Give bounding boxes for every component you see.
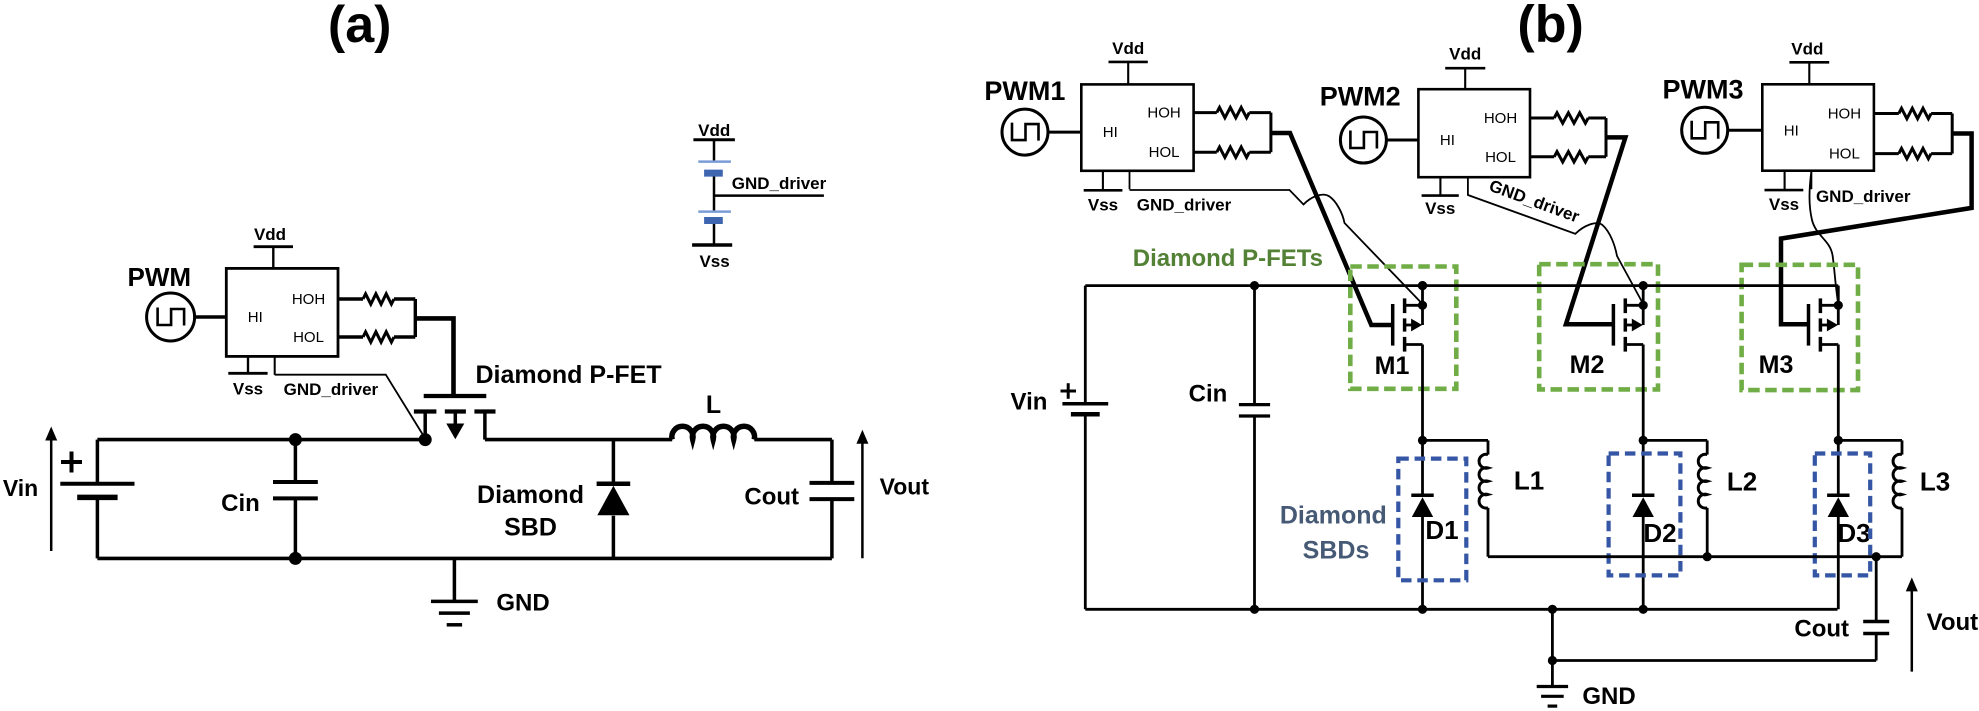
svg-text:Diamond P-FETs: Diamond P-FETs <box>1133 245 1323 272</box>
svg-text:D2: D2 <box>1643 518 1676 548</box>
svg-text:Vdd: Vdd <box>1791 39 1823 58</box>
svg-text:Vin: Vin <box>1011 389 1048 416</box>
svg-text:Vss: Vss <box>233 380 263 399</box>
svg-text:PWM1: PWM1 <box>984 76 1065 106</box>
svg-text:HOL: HOL <box>1829 146 1860 163</box>
svg-text:(a): (a) <box>328 0 392 54</box>
svg-text:Vss: Vss <box>1425 199 1455 218</box>
svg-text:Diamond P-FET: Diamond P-FET <box>476 361 662 389</box>
svg-text:Vss: Vss <box>1769 195 1799 214</box>
svg-text:HOH: HOH <box>292 291 325 308</box>
svg-text:Diamond: Diamond <box>477 481 584 509</box>
svg-text:HI: HI <box>248 309 263 326</box>
svg-text:SBD: SBD <box>504 514 557 542</box>
svg-text:Vdd: Vdd <box>1449 45 1481 64</box>
svg-text:HOH: HOH <box>1147 105 1180 122</box>
svg-text:D3: D3 <box>1837 518 1870 548</box>
svg-text:GND_driver: GND_driver <box>732 174 827 193</box>
svg-text:Cin: Cin <box>1189 381 1228 408</box>
svg-text:L3: L3 <box>1920 467 1950 497</box>
svg-text:HOL: HOL <box>1485 149 1516 166</box>
svg-text:Vin: Vin <box>3 475 38 501</box>
svg-text:GND_driver: GND_driver <box>284 380 379 399</box>
svg-text:GND: GND <box>1582 683 1635 710</box>
svg-text:Diamond: Diamond <box>1280 502 1387 530</box>
svg-text:HOL: HOL <box>293 329 324 346</box>
svg-text:HI: HI <box>1103 124 1118 141</box>
svg-text:M1: M1 <box>1375 352 1410 380</box>
svg-text:HOL: HOL <box>1149 144 1180 161</box>
svg-text:GND: GND <box>496 590 549 617</box>
svg-text:PWM: PWM <box>128 262 192 292</box>
svg-text:L1: L1 <box>1514 466 1544 496</box>
svg-text:Vout: Vout <box>1927 609 1979 636</box>
svg-text:HOH: HOH <box>1828 106 1861 123</box>
svg-text:GND_driver: GND_driver <box>1137 196 1232 215</box>
svg-text:(b): (b) <box>1517 0 1583 54</box>
svg-text:L2: L2 <box>1727 467 1757 497</box>
svg-text:Vdd: Vdd <box>698 121 730 140</box>
svg-text:HI: HI <box>1440 132 1455 149</box>
svg-text:PWM3: PWM3 <box>1663 74 1744 104</box>
svg-text:PWM2: PWM2 <box>1320 82 1401 112</box>
svg-text:Vss: Vss <box>1088 196 1118 215</box>
svg-text:GND_driver: GND_driver <box>1816 187 1911 206</box>
svg-text:M3: M3 <box>1759 351 1794 379</box>
svg-text:Vout: Vout <box>880 474 930 500</box>
svg-text:HOH: HOH <box>1484 110 1517 127</box>
svg-text:Cout: Cout <box>1794 616 1849 643</box>
svg-text:Cout: Cout <box>744 484 799 511</box>
svg-text:L: L <box>706 391 721 419</box>
svg-text:SBDs: SBDs <box>1303 537 1370 565</box>
svg-text:Vdd: Vdd <box>254 225 286 244</box>
svg-text:M2: M2 <box>1570 351 1605 379</box>
svg-text:Vss: Vss <box>699 252 729 271</box>
svg-text:Vdd: Vdd <box>1112 39 1144 58</box>
svg-text:Cin: Cin <box>221 490 260 517</box>
svg-text:HI: HI <box>1784 122 1799 139</box>
svg-text:D1: D1 <box>1425 515 1458 545</box>
